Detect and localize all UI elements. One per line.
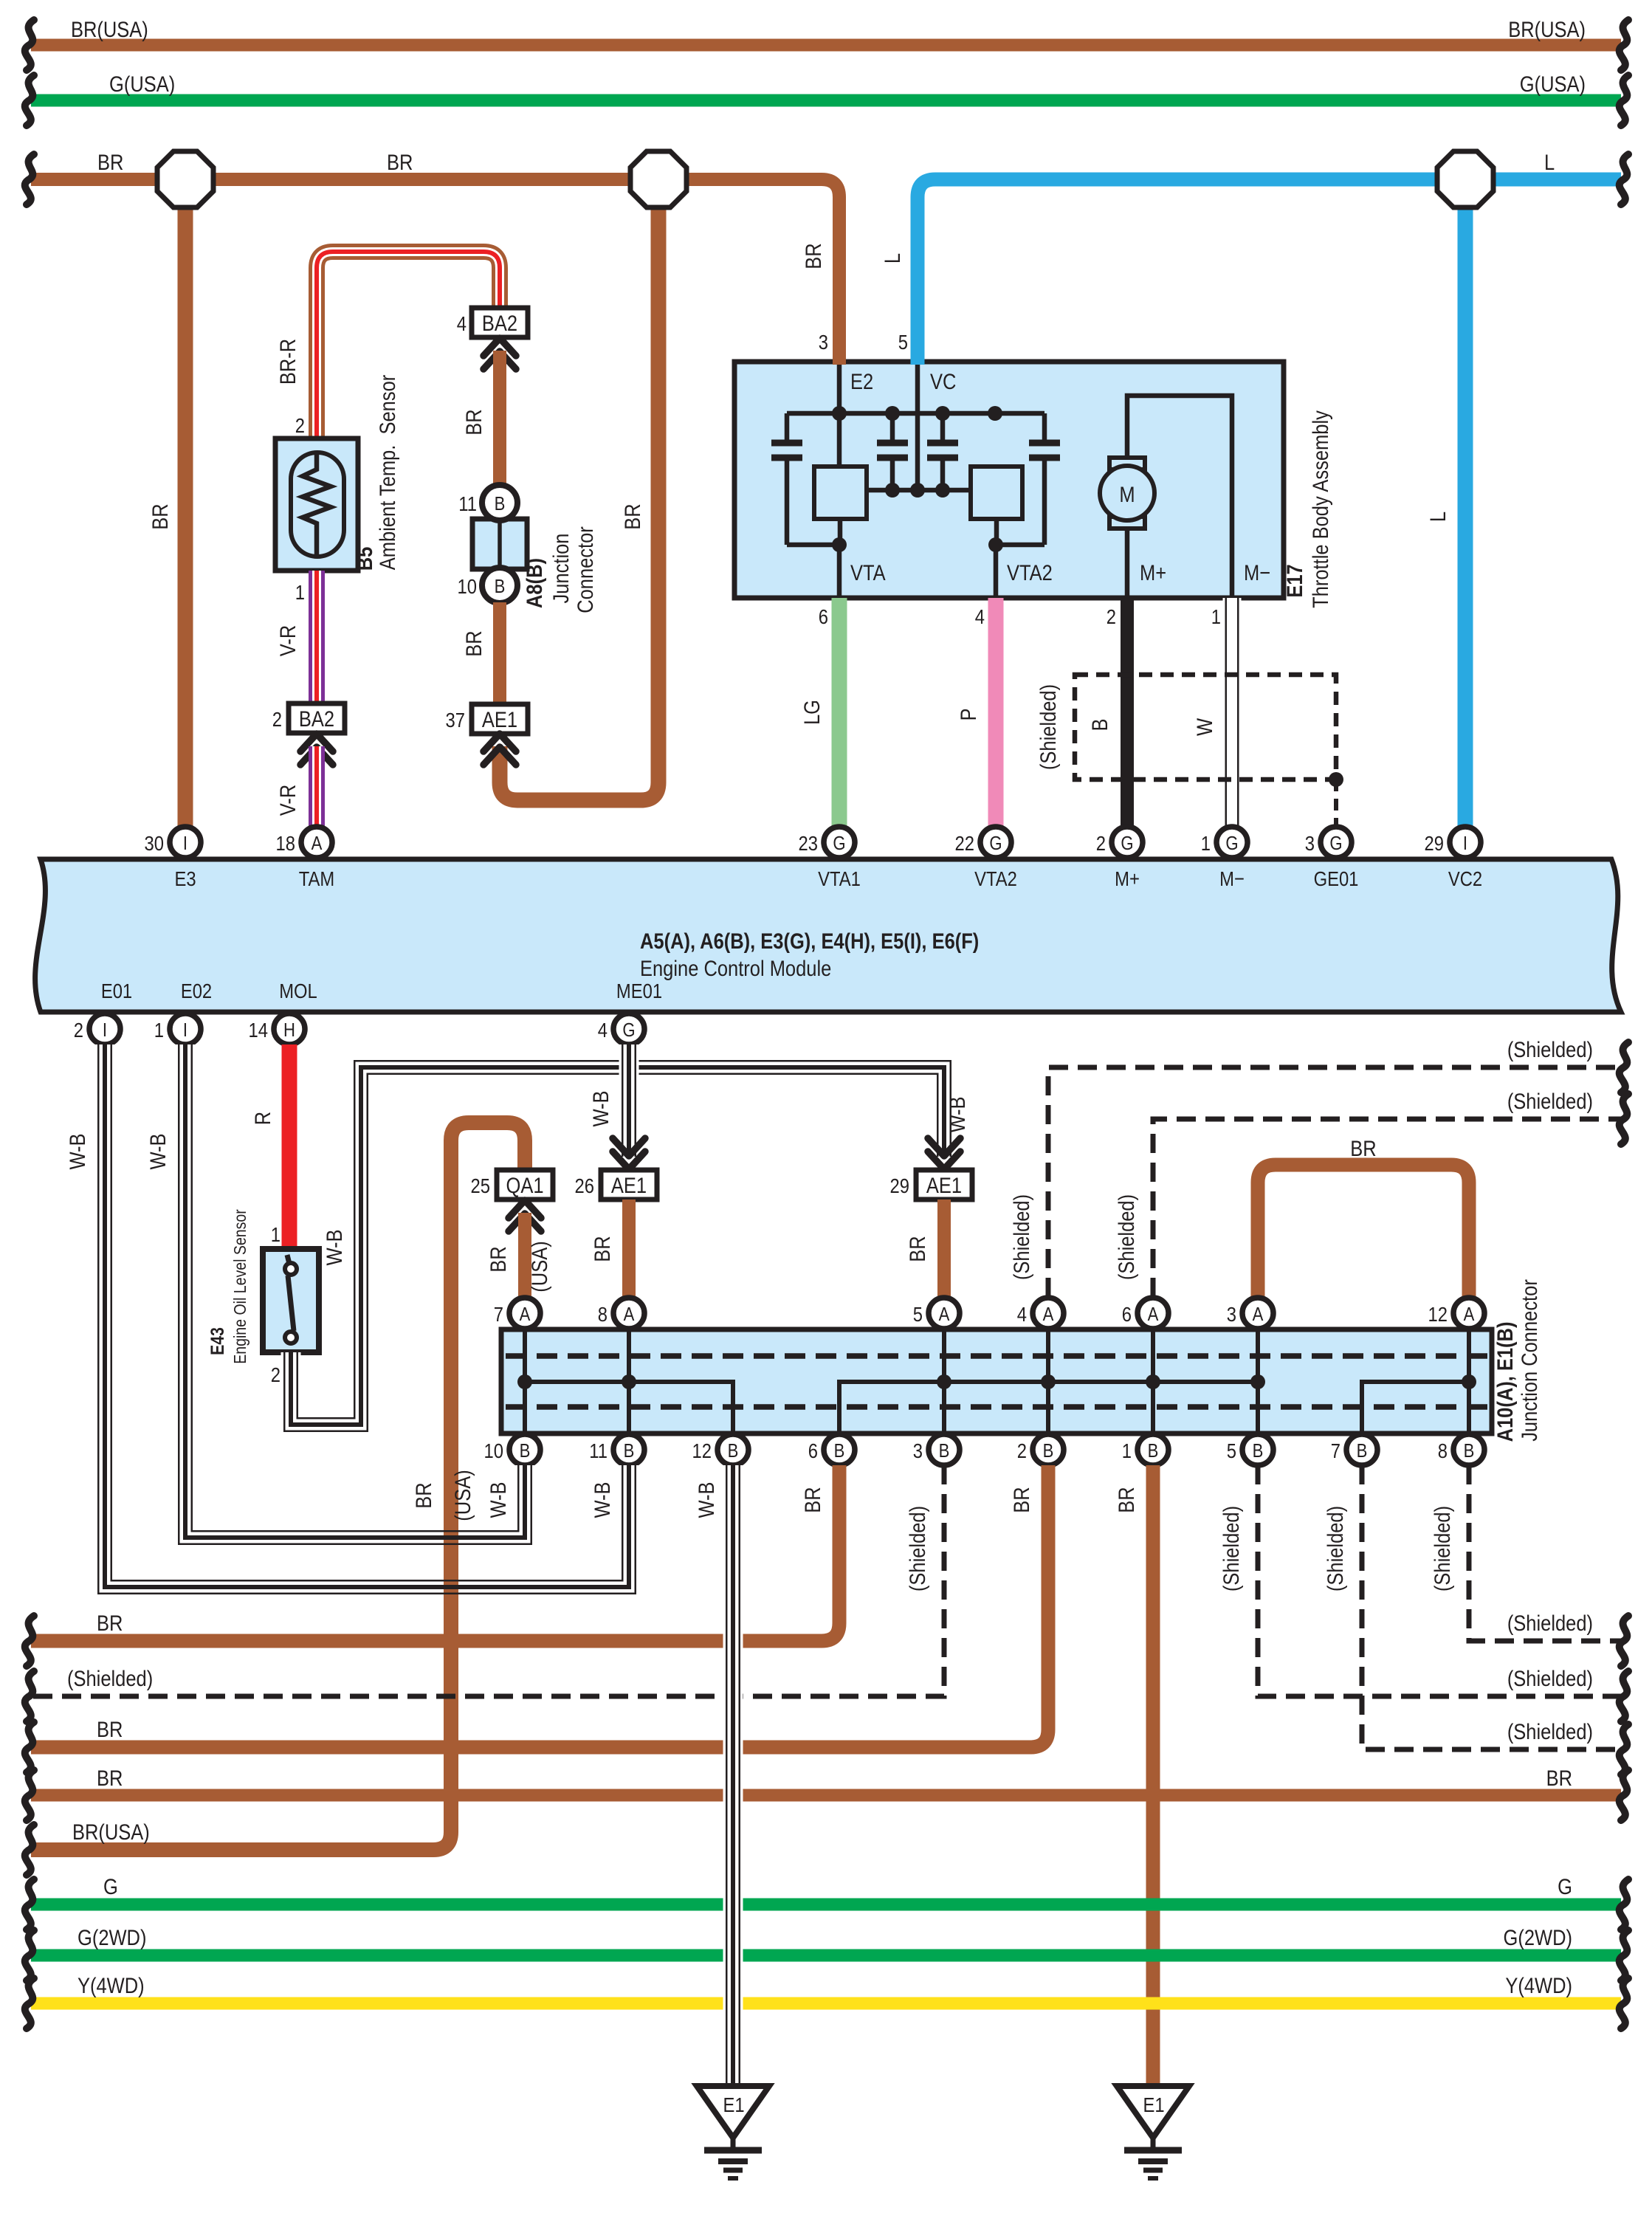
break squiggle BR left bbox=[25, 154, 34, 204]
ECM pin 29 VC2 bbox=[1425, 827, 1483, 890]
svg-text:B: B bbox=[1148, 1440, 1159, 1462]
wire BR octagon1 down to ECM pin 30 bbox=[178, 179, 193, 827]
svg-text:1: 1 bbox=[1201, 831, 1211, 855]
svg-text:BR: BR bbox=[461, 630, 486, 656]
junction bar bus segment 3 bbox=[1362, 1382, 1469, 1431]
junction pin 3A bbox=[1227, 1298, 1273, 1329]
label BR(USA) bus left bbox=[72, 1820, 150, 1844]
svg-text:G: G bbox=[1558, 1874, 1572, 1899]
svg-text:G(USA): G(USA) bbox=[1520, 72, 1586, 96]
chevron arrow AE1 26 bbox=[613, 1138, 645, 1169]
junction bar bus segment 1 bbox=[525, 1382, 733, 1431]
ECM header text bbox=[640, 929, 979, 980]
svg-text:QA1: QA1 bbox=[506, 1173, 543, 1197]
label L rotated pin5 wire bbox=[880, 253, 904, 264]
chevron arrow AE1 29 bbox=[928, 1138, 960, 1169]
wire L from E17 pin 5 to right bbox=[918, 179, 1621, 365]
label BR rotated 8A bbox=[590, 1236, 614, 1262]
break squiggle row2 left bbox=[25, 1671, 34, 1721]
label (Shielded) rotated E17 bbox=[1036, 684, 1060, 770]
shield drain dot bbox=[1329, 772, 1343, 787]
ECM pin 1 M&#8722; bbox=[1201, 827, 1247, 890]
svg-text:Junction Connector: Junction Connector bbox=[1517, 1279, 1541, 1442]
svg-text:2: 2 bbox=[271, 1363, 281, 1386]
label R rotated bbox=[250, 1112, 275, 1125]
break squiggle G right bbox=[1620, 1879, 1628, 1930]
svg-text:W-B: W-B bbox=[145, 1133, 170, 1169]
wire BR(USA) bus to QA1 25 bbox=[31, 1123, 525, 1850]
label A8(B) junction connector bbox=[522, 526, 597, 613]
break squiggle row1 left bbox=[25, 1616, 34, 1666]
svg-text:Y(4WD): Y(4WD) bbox=[78, 1973, 145, 1997]
ECM pin 23 VTA1 bbox=[799, 827, 861, 890]
E17 VTA line bbox=[839, 519, 840, 598]
svg-text:A: A bbox=[1043, 1304, 1055, 1325]
svg-text:H: H bbox=[283, 1019, 295, 1041]
label W-B rotated 11B bbox=[590, 1481, 614, 1518]
svg-text:4: 4 bbox=[598, 1018, 608, 1042]
break squiggle row4 right bbox=[1620, 1770, 1628, 1820]
svg-text:2: 2 bbox=[74, 1018, 83, 1042]
octagon junction 2 bbox=[630, 151, 686, 207]
svg-text:BR: BR bbox=[97, 1766, 123, 1790]
svg-text:1: 1 bbox=[1122, 1439, 1132, 1462]
svg-text:(USA): (USA) bbox=[450, 1470, 475, 1521]
wire BR(USA) QA1 to junction 7A bbox=[518, 1213, 531, 1297]
svg-text:(Shielded): (Shielded) bbox=[1114, 1194, 1138, 1280]
octagon junction 1 bbox=[157, 151, 213, 207]
svg-text:Engine Control Module: Engine Control Module bbox=[640, 956, 831, 980]
svg-text:E1: E1 bbox=[723, 2093, 744, 2116]
connector 4 BA2 bbox=[457, 308, 528, 337]
svg-text:ME01: ME01 bbox=[616, 979, 662, 1002]
svg-text:(Shielded): (Shielded) bbox=[1323, 1506, 1347, 1591]
label BR rotated bbox=[461, 630, 486, 656]
wire BR(USA) top bus bbox=[31, 39, 1621, 52]
svg-text:G(USA): G(USA) bbox=[109, 72, 175, 96]
break squiggle L right bbox=[1620, 154, 1628, 204]
junction bar column 5A-3B bbox=[942, 1332, 946, 1431]
ECM pin 14 MOL bbox=[249, 979, 317, 1044]
svg-text:1: 1 bbox=[154, 1018, 164, 1042]
node dots mid bus bbox=[885, 483, 950, 498]
break squiggle row3 right bbox=[1620, 1724, 1628, 1775]
svg-text:A: A bbox=[939, 1304, 951, 1325]
svg-text:MOL: MOL bbox=[279, 979, 317, 1002]
svg-text:BR: BR bbox=[387, 150, 413, 174]
capacitor C1 bbox=[771, 413, 839, 545]
motor M commutator bbox=[1109, 458, 1145, 529]
ground E1 left bbox=[697, 2086, 769, 2178]
node dots top bus bbox=[832, 406, 1002, 421]
svg-text:(Shielded): (Shielded) bbox=[67, 1666, 153, 1690]
svg-text:LG: LG bbox=[799, 700, 824, 725]
break squiggle shielded 1 bbox=[1620, 1042, 1628, 1092]
svg-text:G: G bbox=[989, 833, 1002, 854]
svg-text:A: A bbox=[1464, 1304, 1476, 1325]
svg-text:1: 1 bbox=[271, 1222, 281, 1246]
svg-text:AE1: AE1 bbox=[926, 1173, 962, 1197]
svg-text:A: A bbox=[624, 1304, 636, 1325]
svg-text:BR: BR bbox=[801, 243, 825, 269]
label L right bbox=[1544, 150, 1555, 174]
wire BR 2B to bottom bus row3 bbox=[31, 1465, 1048, 1747]
wire G(2WD) bus bbox=[31, 1949, 1621, 1962]
wire BR bridge 3A to 12A bbox=[1258, 1165, 1469, 1297]
svg-text:5: 5 bbox=[913, 1302, 923, 1326]
label BR (USA) rotated 7A bbox=[486, 1241, 551, 1292]
svg-text:A8(B): A8(B) bbox=[522, 558, 546, 608]
shielded dashed 6A bbox=[1153, 1119, 1621, 1297]
junction pin 3B bbox=[913, 1434, 960, 1465]
junction bar column 7A-10B bbox=[523, 1332, 527, 1431]
svg-text:BR: BR bbox=[97, 150, 123, 174]
wire BR-R from B5 pin2 to BA2 pin4 bbox=[317, 252, 500, 440]
connector 29 AE1 bbox=[890, 1170, 972, 1200]
break squiggle row4 left bbox=[25, 1770, 34, 1820]
svg-text:BR: BR bbox=[1009, 1487, 1033, 1512]
svg-text:3: 3 bbox=[1305, 831, 1315, 855]
svg-text:VTA2: VTA2 bbox=[1007, 560, 1053, 585]
chevron arrow AE1 37 bbox=[483, 734, 516, 765]
svg-text:E43: E43 bbox=[207, 1327, 227, 1355]
wire BR loop octagon2 to AE1 37 bbox=[500, 179, 658, 800]
label BR rotated octagon2 bbox=[620, 503, 644, 529]
label BR(USA) left bbox=[71, 17, 148, 41]
svg-text:37: 37 bbox=[446, 708, 465, 732]
break squiggle BR(USA) left bbox=[25, 20, 34, 70]
svg-text:W-B: W-B bbox=[588, 1090, 613, 1126]
svg-text:11: 11 bbox=[589, 1439, 608, 1462]
svg-text:3: 3 bbox=[819, 330, 828, 354]
label (Shielded) rotated 3B bbox=[905, 1506, 929, 1591]
E17 VTA2 line bbox=[996, 519, 997, 598]
break squiggle G(USA) right bbox=[1620, 75, 1628, 125]
ambient temp sensor B5 box bbox=[275, 438, 358, 571]
svg-text:W-B: W-B bbox=[65, 1133, 89, 1169]
wire V-R BA2-2 to ECM pin 18 bbox=[309, 746, 325, 827]
node dots VTA bbox=[832, 537, 1003, 552]
label 2 E43 bbox=[271, 1363, 281, 1386]
ECM pin 22 VTA2 bbox=[955, 827, 1017, 890]
shield box dashed around B W bbox=[1075, 675, 1336, 779]
svg-text:1: 1 bbox=[1211, 605, 1221, 628]
wire V-R B5 pin1 to BA2 pin2 bbox=[309, 571, 325, 703]
label W-B rotated E43 loop bbox=[322, 1229, 346, 1265]
B5 resistor zigzag bbox=[303, 452, 331, 557]
pin number 1 bbox=[1211, 605, 1221, 628]
break squiggle row2 right bbox=[1620, 1671, 1628, 1721]
svg-text:30: 30 bbox=[145, 831, 164, 855]
label BR rotated 5A bbox=[905, 1236, 929, 1262]
svg-text:10: 10 bbox=[458, 574, 477, 598]
wire LG VTA1 bbox=[832, 598, 847, 827]
svg-text:5: 5 bbox=[1227, 1439, 1236, 1462]
label BR bus row4 right bbox=[1546, 1766, 1572, 1790]
sensor block 2 bbox=[971, 467, 1022, 519]
svg-text:2: 2 bbox=[1107, 605, 1116, 628]
pin number 6 bbox=[819, 605, 828, 628]
svg-text:(USA): (USA) bbox=[527, 1241, 551, 1292]
label 2 pin B5 top bbox=[295, 413, 305, 437]
svg-text:29: 29 bbox=[890, 1174, 909, 1197]
svg-text:8: 8 bbox=[598, 1302, 608, 1326]
svg-text:B: B bbox=[1087, 718, 1112, 731]
break squiggle BR(USA) right bbox=[1620, 20, 1628, 70]
connector 37 AE1 bbox=[446, 704, 528, 734]
junction bar node dots bbox=[517, 1374, 1476, 1389]
junction bar dashed row 2 bbox=[506, 1404, 1487, 1410]
label (Shielded) row3 right bbox=[1507, 1719, 1593, 1744]
B5 thermistor stadium bbox=[291, 452, 344, 557]
svg-text:4: 4 bbox=[1017, 1302, 1027, 1326]
svg-text:Engine Oil Level Sensor: Engine Oil Level Sensor bbox=[231, 1209, 250, 1364]
svg-text:A: A bbox=[312, 833, 323, 854]
label 1 E43 bbox=[271, 1222, 281, 1246]
svg-text:BR: BR bbox=[97, 1611, 123, 1635]
label (Shielded) rotated 5B bbox=[1219, 1506, 1243, 1591]
junction connector A8(B) bbox=[472, 519, 527, 569]
label BR bridge bbox=[1350, 1136, 1376, 1160]
label W rotated bbox=[1192, 717, 1216, 736]
svg-text:11: 11 bbox=[458, 492, 477, 515]
junction pin 6A bbox=[1122, 1298, 1169, 1329]
break squiggle G left bbox=[25, 1879, 34, 1930]
svg-text:(Shielded): (Shielded) bbox=[1507, 1089, 1593, 1113]
svg-text:Y(4WD): Y(4WD) bbox=[1505, 1973, 1572, 1997]
svg-text:G: G bbox=[1121, 833, 1133, 854]
svg-text:BR: BR bbox=[590, 1236, 614, 1262]
label G(2WD) left bbox=[78, 1925, 146, 1949]
label W-B rotated 12B bbox=[694, 1481, 718, 1518]
label G(USA) left bbox=[109, 72, 175, 96]
svg-text:W-B: W-B bbox=[694, 1481, 718, 1518]
svg-text:B: B bbox=[495, 493, 506, 514]
svg-text:E17: E17 bbox=[1282, 564, 1307, 597]
svg-text:3: 3 bbox=[913, 1439, 923, 1462]
svg-text:M: M bbox=[1119, 482, 1135, 506]
svg-text:B: B bbox=[1043, 1440, 1054, 1462]
svg-text:I: I bbox=[103, 1019, 107, 1041]
svg-text:2: 2 bbox=[1017, 1439, 1027, 1462]
svg-text:P: P bbox=[956, 708, 980, 720]
svg-text:2: 2 bbox=[1096, 831, 1106, 855]
svg-text:B: B bbox=[1357, 1440, 1368, 1462]
label W-B rotated E01 bbox=[65, 1133, 89, 1169]
shielded dashed 5B to right bbox=[1258, 1465, 1621, 1696]
svg-text:W-B: W-B bbox=[486, 1481, 510, 1518]
wire BR bus row4 full bbox=[31, 1789, 1621, 1802]
E17 internal top bus bbox=[787, 411, 1044, 416]
label B5 ambient temp sensor bbox=[352, 375, 399, 571]
connector 26 AE1 bbox=[575, 1170, 657, 1200]
svg-text:A10(A), E1(B): A10(A), E1(B) bbox=[1493, 1322, 1517, 1442]
junction pin 10B bbox=[484, 1434, 540, 1465]
E17 label VTA2 bbox=[1007, 560, 1053, 585]
octagon junction 3 bbox=[1437, 151, 1493, 207]
svg-text:G: G bbox=[622, 1019, 635, 1041]
junction connector bar A10(A),E1(B) bbox=[501, 1329, 1492, 1434]
junction pin 8A bbox=[598, 1298, 644, 1329]
label (Shielded) rotated 4A bbox=[1009, 1194, 1033, 1280]
svg-text:26: 26 bbox=[575, 1174, 594, 1197]
junction pin 12A bbox=[1428, 1298, 1484, 1329]
label BR(USA) right bbox=[1508, 17, 1586, 41]
wire R MOL to E43 bbox=[282, 1044, 297, 1249]
wire W-B 12B to ground E1 bbox=[723, 1465, 743, 2089]
label BR bus mid bbox=[387, 150, 413, 174]
label 1 pin B5 bottom bbox=[295, 580, 305, 604]
svg-text:BA2: BA2 bbox=[482, 311, 517, 335]
svg-text:E3: E3 bbox=[174, 867, 196, 890]
label BR rotated E2 wire bbox=[801, 243, 825, 269]
chevron arrow QA1 25 bbox=[509, 1200, 541, 1231]
wire BR BA2-4 to junction B11 bbox=[493, 351, 506, 487]
ECM pin 1 E02 bbox=[154, 979, 212, 1044]
svg-text:BR(USA): BR(USA) bbox=[71, 17, 148, 41]
svg-text:22: 22 bbox=[955, 831, 974, 855]
pin 11 B circle bbox=[458, 485, 517, 520]
label BR (USA) rotated big brown bbox=[411, 1470, 475, 1521]
svg-text:BR: BR bbox=[411, 1482, 436, 1508]
svg-text:G: G bbox=[1329, 833, 1342, 854]
label BR rotated bbox=[148, 503, 172, 529]
label G(2WD) right bbox=[1504, 1925, 1572, 1949]
ECM pin 3 GE01 bbox=[1305, 827, 1359, 890]
label (Shielded) rotated 6A bbox=[1114, 1194, 1138, 1280]
label BR bus left bbox=[97, 150, 123, 174]
label A10(A),E1(B) junction connector bbox=[1493, 1279, 1541, 1442]
connector 2 BA2 bbox=[272, 703, 345, 733]
junction bar column 12A-8B bbox=[1467, 1332, 1471, 1431]
svg-text:4: 4 bbox=[975, 605, 985, 628]
motor M wire bbox=[1127, 396, 1232, 598]
svg-text:BA2: BA2 bbox=[299, 706, 334, 731]
label G left bbox=[103, 1874, 118, 1899]
svg-text:GE01: GE01 bbox=[1314, 867, 1359, 890]
junction pin 12B bbox=[692, 1434, 748, 1465]
svg-text:BR: BR bbox=[800, 1487, 825, 1512]
ECM body A5(A),A6(B),E3(G),E4(H),E5(I),E6(F) Engine Control Module bbox=[35, 859, 1621, 1012]
svg-text:(Shielded): (Shielded) bbox=[1507, 1611, 1593, 1635]
svg-text:E01: E01 bbox=[101, 979, 132, 1002]
svg-text:V-R: V-R bbox=[275, 785, 300, 816]
junction pin 6B bbox=[808, 1434, 855, 1465]
chevron arrow BA2 2 bbox=[300, 734, 333, 765]
label BR bus row4 left bbox=[97, 1766, 123, 1790]
svg-text:29: 29 bbox=[1425, 831, 1444, 855]
junction bar bus segment 2 bbox=[839, 1382, 1258, 1431]
svg-text:M−: M− bbox=[1244, 560, 1270, 585]
ECM pin 4 ME01 bbox=[598, 979, 662, 1044]
svg-text:8: 8 bbox=[1438, 1439, 1448, 1462]
svg-text:W-B: W-B bbox=[590, 1481, 614, 1518]
wire BR junction B10 to AE1 37 bbox=[493, 602, 506, 704]
wire BR AE1-26 to junction 8A bbox=[622, 1200, 636, 1297]
label BR-R rotated bbox=[275, 339, 300, 385]
junction pin 1B bbox=[1122, 1434, 1169, 1465]
svg-text:W-B: W-B bbox=[945, 1096, 969, 1132]
label (Shielded) row1 right bbox=[1507, 1611, 1593, 1635]
pin number 5 above E17 bbox=[898, 330, 908, 354]
svg-text:1: 1 bbox=[295, 580, 305, 604]
capacitor C2 bbox=[877, 413, 908, 490]
junction bar column 4A-2B bbox=[1046, 1332, 1050, 1431]
svg-text:B: B bbox=[520, 1440, 531, 1462]
label (Shielded) right 2 bbox=[1507, 1089, 1593, 1113]
svg-text:BR: BR bbox=[620, 503, 644, 529]
wire P VTA2 bbox=[988, 598, 1004, 827]
svg-text:B: B bbox=[834, 1440, 845, 1462]
svg-text:E2: E2 bbox=[850, 369, 873, 393]
label B rotated bbox=[1087, 718, 1112, 731]
break squiggle Y4WD left bbox=[25, 1978, 34, 2028]
wire W-B E02 to 10B bbox=[185, 1044, 525, 1538]
connector 25 QA1 bbox=[471, 1170, 553, 1200]
junction pin 5A bbox=[913, 1298, 960, 1329]
svg-text:G: G bbox=[1225, 833, 1238, 854]
svg-text:10: 10 bbox=[484, 1439, 503, 1462]
svg-text:12: 12 bbox=[1428, 1302, 1448, 1326]
label E17 throttle body assembly bbox=[1282, 410, 1332, 608]
wire W M- bbox=[1223, 598, 1242, 827]
ECM pin 30 E3 bbox=[145, 827, 201, 890]
svg-text:(Shielded): (Shielded) bbox=[1219, 1506, 1243, 1591]
svg-text:18: 18 bbox=[276, 831, 295, 855]
svg-text:(Shielded): (Shielded) bbox=[1430, 1506, 1454, 1591]
svg-text:BR: BR bbox=[1114, 1487, 1138, 1512]
label BR bus row3 left bbox=[97, 1717, 123, 1741]
E17 label M+ bbox=[1140, 560, 1166, 585]
ECM pin 2 E01 bbox=[74, 979, 132, 1044]
pin number 2 bbox=[1107, 605, 1116, 628]
svg-text:TAM: TAM bbox=[299, 867, 334, 890]
svg-text:2: 2 bbox=[272, 707, 282, 731]
capacitor C4 bbox=[996, 413, 1060, 545]
E17 label M- bbox=[1244, 560, 1270, 585]
svg-text:G: G bbox=[833, 833, 845, 854]
svg-text:2: 2 bbox=[295, 413, 305, 437]
label W-B rotated ME01 bbox=[588, 1090, 613, 1126]
svg-text:BR: BR bbox=[486, 1246, 510, 1272]
junction pin 7B bbox=[1331, 1434, 1377, 1465]
break squiggle row3 left bbox=[25, 1722, 34, 1772]
svg-text:14: 14 bbox=[249, 1018, 268, 1042]
wire BR 6B to bottom bus row1 bbox=[31, 1465, 839, 1641]
svg-text:E02: E02 bbox=[181, 979, 212, 1002]
junction pin 8B bbox=[1438, 1434, 1484, 1465]
svg-text:Ambient Temp. Sensor: Ambient Temp. Sensor bbox=[375, 375, 399, 570]
svg-text:BR: BR bbox=[905, 1236, 929, 1262]
label BR rotated 6B bbox=[800, 1487, 825, 1512]
wire W-B ME01 to AE1 26 bbox=[619, 1044, 639, 1157]
svg-text:AE1: AE1 bbox=[482, 707, 517, 732]
wire crossing patches at BR(USA) vertical bbox=[438, 1522, 464, 1603]
svg-text:12: 12 bbox=[692, 1439, 712, 1462]
wire G(USA) top bus bbox=[31, 94, 1621, 107]
label (Shielded) rotated 7B bbox=[1323, 1506, 1347, 1591]
shielded dashed 4A bbox=[1048, 1067, 1621, 1297]
svg-text:L: L bbox=[1544, 150, 1555, 174]
engine oil level sensor E43 box bbox=[263, 1249, 319, 1352]
E43 switch bbox=[285, 1255, 297, 1343]
svg-text:23: 23 bbox=[799, 831, 818, 855]
shielded dashed 7B to right bbox=[1362, 1465, 1621, 1749]
wire Y(4WD) bus bbox=[31, 1997, 1621, 2010]
svg-text:(Shielded): (Shielded) bbox=[905, 1506, 929, 1591]
wire L VC2 down bbox=[1458, 179, 1473, 827]
label V-R rotated lower bbox=[275, 785, 300, 816]
